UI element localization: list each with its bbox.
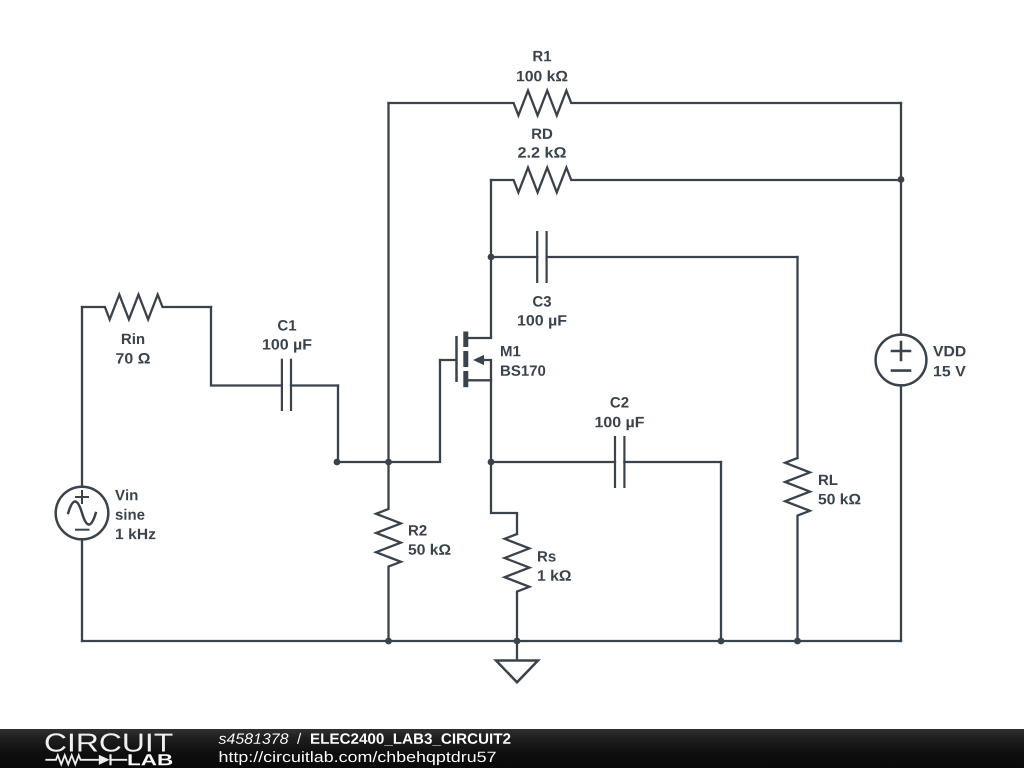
label C3 name	[533, 296, 551, 307]
label VDD name	[933, 346, 965, 356]
node R2 top	[385, 459, 392, 466]
node R2 bottom	[385, 638, 392, 645]
label RD name	[532, 129, 552, 139]
wire Rin right drop	[211, 307, 282, 386]
label C2 value	[596, 417, 644, 431]
transistor M1	[440, 332, 491, 388]
logo resistor-diode squiggle	[45, 754, 127, 765]
label R2 value	[409, 544, 451, 555]
wire below VDD	[900, 385, 902, 641]
label M1 value	[501, 365, 545, 376]
capacitor C1	[282, 359, 338, 411]
label C2 name	[611, 397, 629, 408]
resistor Rin	[82, 295, 211, 320]
wire bottom rail	[82, 640, 901, 642]
label RL value	[819, 493, 861, 504]
wire C1 right drop to gate node	[337, 386, 339, 463]
wire gate lead	[337, 360, 440, 462]
resistor RL	[785, 458, 810, 641]
voltage source Vin	[56, 487, 109, 540]
label Vin freq	[116, 528, 155, 539]
node VDD/R1/RD junction	[898, 176, 905, 183]
label Rin name	[122, 333, 144, 344]
label R1 value	[517, 70, 567, 81]
label C1 value	[263, 339, 311, 353]
node C1/gate row	[334, 459, 341, 466]
label Rs value	[538, 570, 571, 581]
node Rs bottom	[514, 638, 521, 645]
logo LAB text	[129, 754, 173, 765]
label VDD value	[934, 366, 966, 376]
footer separator	[297, 733, 301, 744]
label C3 value	[518, 315, 566, 329]
wire C2 right drop	[720, 462, 722, 641]
label RD value	[518, 147, 566, 158]
footer circuit name	[311, 733, 510, 745]
resistor R1	[389, 91, 902, 116]
label Rs name	[538, 551, 556, 561]
wire source vertical	[490, 380, 492, 462]
wire RD left drop to drain node	[490, 180, 492, 257]
voltage source VDD	[876, 335, 927, 386]
capacitor C3	[491, 231, 798, 283]
wire left vertical above Vin	[81, 307, 83, 487]
label Vin type	[116, 509, 145, 520]
node C2 bottom	[718, 638, 725, 645]
footer session id	[219, 733, 289, 744]
footer url	[220, 751, 496, 765]
node drain/C3 junction	[488, 254, 495, 261]
wire below Vin to ground rail	[81, 539, 83, 641]
wire drain vertical	[468, 257, 491, 338]
label M1 name	[501, 346, 520, 356]
label R1 name	[533, 51, 551, 61]
wire C3 right drop to RL	[796, 257, 798, 458]
wire Rs jog	[491, 462, 517, 534]
logo CIRCUIT text	[46, 733, 173, 752]
resistor RD	[491, 168, 901, 193]
resistor R2	[376, 462, 401, 641]
label RL name	[819, 475, 838, 485]
label Vin name	[115, 489, 137, 500]
capacitor C2	[491, 436, 721, 488]
wire R1 left vertical drop to gate node	[387, 103, 389, 462]
label Rin value	[116, 353, 150, 364]
wire VDD top vertical	[900, 180, 902, 335]
resistor Rs	[505, 534, 530, 641]
node RL bottom	[794, 638, 801, 645]
label R2 name	[409, 525, 427, 536]
ground	[496, 641, 538, 682]
label C1 name	[278, 320, 296, 331]
wire R1 right vertical to VDD node	[900, 103, 902, 180]
node source/C2/Rs	[488, 459, 495, 466]
